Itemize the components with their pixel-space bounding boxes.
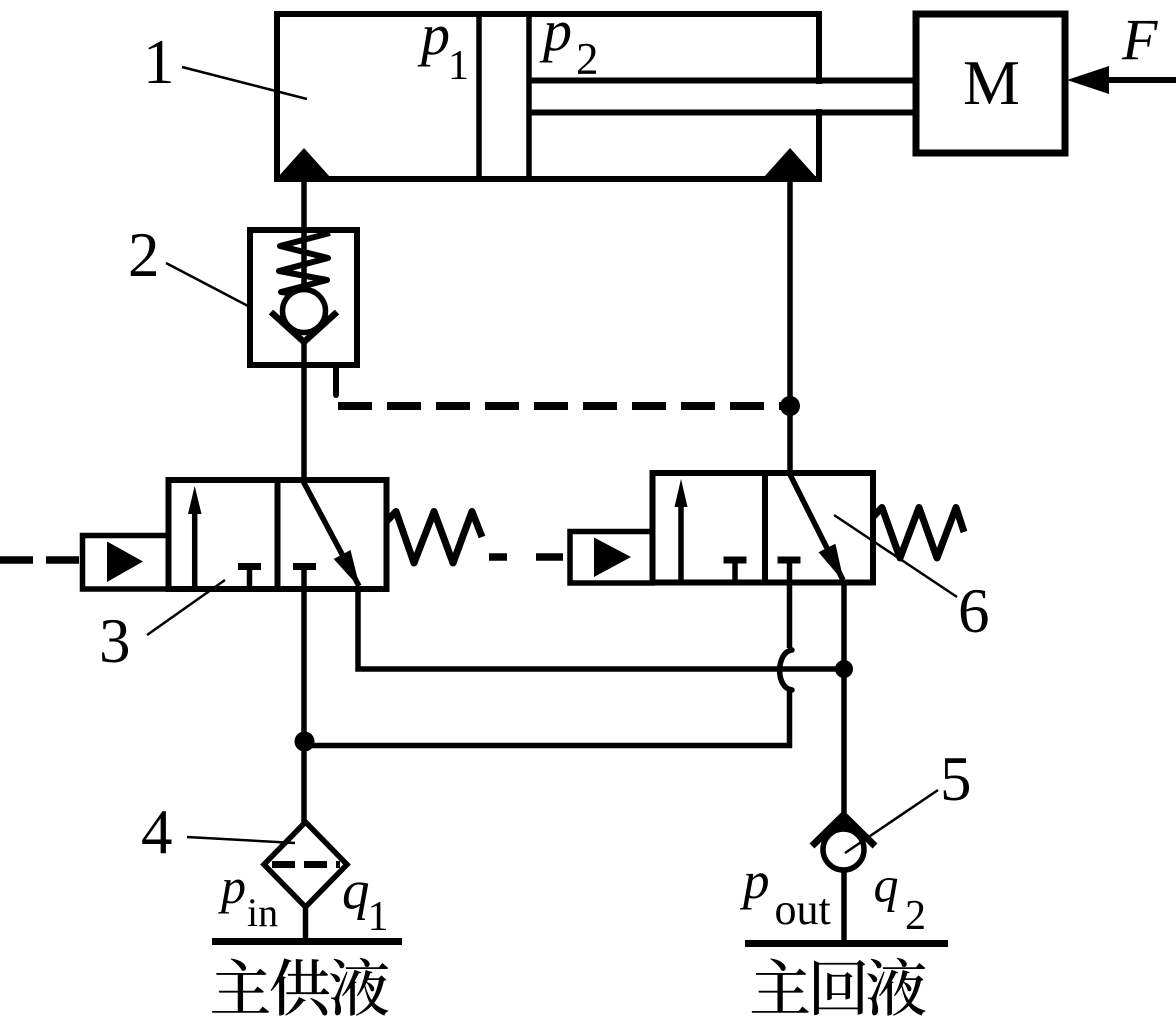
svg-text:q: q [342,860,370,921]
valve 6 diagonal path [790,475,843,581]
svg-text:2: 2 [576,34,599,84]
check valve 5 seat lines [812,815,875,846]
wire cylinder to valve2 [301,176,307,292]
wire cylinder right to valve6 [787,176,793,474]
valve 3 pilot box [83,536,169,590]
wire valve6 center port with hop [787,563,793,648]
label 5 leader [845,790,938,853]
spring of valve 2 [279,233,330,295]
supply base line [212,938,402,945]
pilot-operated check valve 2 box [250,230,357,365]
text 主回液 (main return) [752,958,926,1016]
valve 3 body [169,480,387,589]
port arrow left under cylinder [278,148,330,177]
svg-text:6: 6 [958,576,990,646]
valve 3 pilot dashed line [0,556,82,564]
wire valve3 T2 port down to node B [301,570,307,744]
check valve 5 seat fill [826,811,862,831]
piston line right [526,17,532,176]
svg-text:in: in [247,890,278,935]
svg-text:5: 5 [940,744,972,814]
dashed link between valve 3 and valve 6 [489,553,507,561]
port arrow right under cylinder [764,148,816,177]
svg-text:q: q [874,857,899,913]
text 主供液 (main supply) [212,958,389,1016]
ball of valve 2 [283,290,326,333]
svg-text:3: 3 [99,606,131,676]
junction node C dot [835,660,853,678]
piston line left [476,17,482,176]
svg-text:1: 1 [368,894,389,940]
piston rod [532,84,910,109]
svg-text:p: p [417,2,450,67]
svg-text:4: 4 [141,797,173,867]
valve 6 blocked port T2 [778,557,801,564]
pilot stub of valve 2 [333,365,339,395]
wire check valve 5 to return line [841,870,847,943]
cylinder 1 body [277,14,819,179]
svg-text:1: 1 [143,27,175,97]
dashed pilot line to node A [338,402,788,410]
check valve 5 ball [823,829,864,870]
valve 6 spring [873,508,964,559]
valve 6 body [653,473,874,583]
valve 6 pilot box [570,532,653,584]
valve 3 blocked port T2 [293,563,316,570]
svg-text:2: 2 [905,893,926,939]
svg-text:out: out [775,885,831,934]
wire valve2 to valve3 [301,340,307,481]
filter 4 [264,822,347,907]
valve 6 flow arrow [678,503,684,580]
mass M box [916,14,1065,153]
junction node A dot [780,396,800,416]
wire filter to supply line [303,907,309,941]
svg-text:p: p [539,0,572,63]
svg-text:p: p [218,858,246,914]
valve 3 diagonal path [303,481,359,586]
valve 3 blocked port T1 [238,563,261,570]
force F arrow [1106,77,1176,83]
svg-text:p: p [739,852,770,910]
svg-text:F: F [1121,7,1158,72]
valve 3 flow arrow [192,510,198,586]
svg-text:M: M [963,47,1020,118]
svg-text:1: 1 [448,43,469,89]
wire node B down to filter 4 [301,744,307,824]
valve 6 blocked port T1 [724,557,747,564]
return base line [745,940,948,947]
seat of valve 2 [271,312,337,342]
junction node B dot [295,732,315,752]
svg-text:2: 2 [128,220,160,290]
wire valve6 right port through node C to check valve 5 [841,581,847,816]
valve 3 spring [387,512,482,564]
wire valve3 right port to node C [358,586,840,669]
